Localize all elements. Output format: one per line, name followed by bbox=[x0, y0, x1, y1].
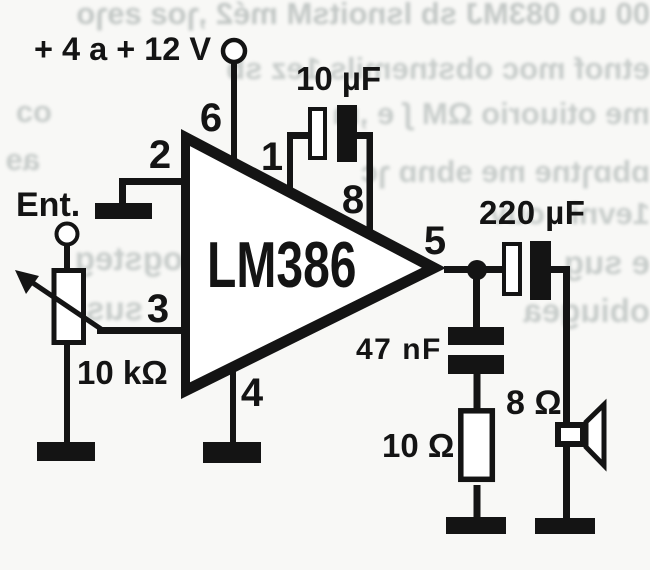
ghost bleed-through line 4 left fragment bbox=[0, 142, 40, 178]
svg-text:LM386: LM386 bbox=[207, 230, 357, 301]
wire pin 1 vertical bbox=[287, 132, 293, 188]
capacitor C2 220uF negative plate bbox=[530, 241, 551, 300]
svg-text:Ent.: Ent. bbox=[16, 186, 80, 224]
ghost bleed-through line 6 left bbox=[28, 240, 183, 278]
ground pin 4 bbox=[203, 442, 261, 463]
capacitor C3 47nF plate 1 bbox=[448, 327, 504, 345]
ghost bleed-through line 3 left fragment bbox=[0, 94, 52, 130]
op-amp U1 LM386 triangle bbox=[181, 129, 446, 399]
ground potentiometer bbox=[37, 442, 95, 461]
svg-text:10 kΩ: 10 kΩ bbox=[77, 354, 168, 391]
pin label 3 bbox=[147, 287, 169, 331]
svg-text:1: 1 bbox=[261, 135, 283, 179]
wire R1 to ground bbox=[474, 485, 481, 518]
svg-text:10 µF: 10 µF bbox=[296, 60, 381, 97]
ghost bleed-through line 6 right bbox=[440, 244, 650, 282]
wire pin 1 horizontal bbox=[287, 132, 310, 139]
wire pin 5 output bbox=[444, 266, 504, 273]
ghost bleed-through line 3 bbox=[256, 96, 650, 132]
wire junction down to C3 bbox=[473, 270, 480, 328]
ghost bleed-through line 7 right bbox=[478, 292, 650, 330]
pin label 6 bbox=[200, 96, 222, 140]
ghost bleed-through line 2 bbox=[245, 51, 650, 87]
wire input to potentiometer bbox=[64, 244, 70, 271]
speaker SPK box bbox=[558, 425, 583, 444]
capacitor C1 10uF negative plate bbox=[337, 105, 357, 162]
potentiometer P1 body bbox=[54, 271, 84, 343]
wire speaker vertical bbox=[563, 266, 570, 518]
ghost bleed-through line 5 bbox=[398, 196, 650, 232]
svg-text:8 Ω: 8 Ω bbox=[506, 384, 562, 422]
svg-text:4: 4 bbox=[241, 371, 264, 415]
wire pin 8 vertical bbox=[367, 132, 374, 230]
input label Ent. bbox=[16, 186, 80, 224]
ghost bleed-through line 7 left bbox=[8, 290, 143, 328]
value label 10 uF bbox=[296, 60, 381, 97]
value label 10 Ohm bbox=[382, 427, 454, 464]
ground pin 2 bbox=[95, 203, 152, 219]
supply terminal bbox=[223, 40, 245, 62]
speaker SPK horn bbox=[586, 405, 604, 466]
node junction output bbox=[467, 260, 487, 280]
supply label +4 a +12V bbox=[34, 31, 211, 67]
pin label 5 bbox=[424, 219, 446, 263]
input terminal bbox=[57, 224, 78, 245]
ground R1 bbox=[446, 517, 506, 534]
svg-text:47 nF: 47 nF bbox=[356, 333, 442, 366]
wire C2 to speaker horizontal bbox=[551, 266, 567, 273]
resistor R1 10 Ohm body bbox=[461, 411, 493, 480]
svg-text:8: 8 bbox=[342, 178, 364, 222]
value label 8 Ohm bbox=[506, 384, 562, 422]
potentiometer wiper arrow bbox=[15, 270, 101, 329]
capacitor C1 10uF positive plate bbox=[310, 109, 325, 158]
svg-text:+ 4 a + 12 V: + 4 a + 12 V bbox=[34, 31, 211, 67]
ghost bleed-through line 4 bbox=[280, 154, 650, 190]
op-amp U1 label LM386 bbox=[207, 230, 357, 301]
wire pin 2 horizontal bbox=[119, 178, 187, 185]
wire C3 to R1 bbox=[474, 374, 481, 410]
value label 220 uF bbox=[479, 194, 585, 231]
capacitor C3 47nF plate 2 bbox=[448, 355, 504, 374]
svg-text:2: 2 bbox=[149, 133, 171, 177]
wire pin 3 bbox=[97, 327, 190, 334]
pin label 1 bbox=[261, 135, 283, 179]
wire supply to pin 6 bbox=[231, 62, 237, 162]
pin label 2 bbox=[149, 133, 171, 177]
pin label 8 bbox=[342, 178, 364, 222]
ground speaker bbox=[535, 518, 595, 534]
wire pin 2 vertical bbox=[119, 178, 126, 205]
svg-text:5: 5 bbox=[424, 219, 446, 263]
svg-text:10 Ω: 10 Ω bbox=[382, 427, 454, 464]
value label 10 kOhm bbox=[77, 354, 168, 391]
capacitor C2 220uF positive plate bbox=[504, 244, 520, 294]
svg-text:3: 3 bbox=[147, 287, 169, 331]
ghost bleed-through line 1 bbox=[45, 0, 650, 32]
wire pin 8 horizontal bbox=[356, 132, 373, 139]
svg-text:6: 6 bbox=[200, 96, 222, 140]
svg-text:220 µF: 220 µF bbox=[479, 194, 585, 231]
wire pin 4 bbox=[230, 370, 236, 444]
pin label 4 bbox=[241, 371, 264, 415]
value label 47 nF bbox=[356, 333, 442, 366]
wire potentiometer to ground bbox=[64, 341, 70, 443]
